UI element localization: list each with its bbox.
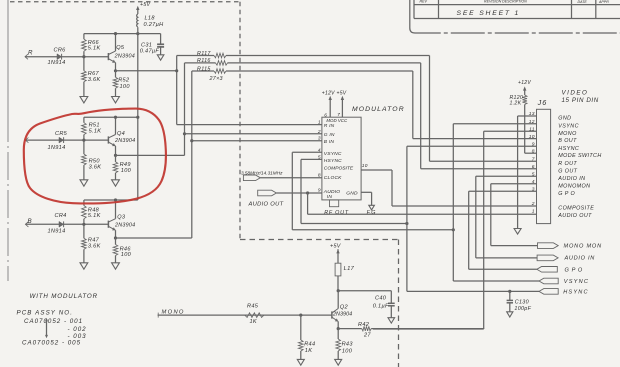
svg-text:- 002: - 002: [68, 326, 87, 333]
svg-text:AUDIO OUT: AUDIO OUT: [557, 213, 592, 219]
svg-text:0.1µF: 0.1µF: [373, 304, 389, 310]
svg-text:COMPOSITE: COMPOSITE: [558, 206, 594, 212]
svg-text:1N914: 1N914: [48, 229, 66, 235]
svg-text:100: 100: [342, 348, 353, 354]
svg-text:9: 9: [532, 141, 535, 147]
svg-text:2N3904: 2N3904: [114, 54, 135, 60]
svg-text:Q3: Q3: [117, 214, 126, 220]
svg-text:1.2K: 1.2K: [510, 101, 522, 107]
svg-text:3: 3: [318, 136, 321, 142]
svg-text:R OUT: R OUT: [558, 161, 577, 167]
svg-text:3.6K: 3.6K: [88, 77, 101, 83]
svg-text:VSYNC: VSYNC: [324, 151, 342, 157]
svg-text:7: 7: [532, 157, 535, 163]
svg-text:IN: IN: [327, 194, 333, 200]
svg-text:1K: 1K: [305, 348, 312, 354]
svg-text:Q4: Q4: [117, 131, 125, 137]
svg-text:MONO MON: MONO MON: [564, 244, 603, 250]
svg-text:CA070052 - 001: CA070052 - 001: [24, 318, 83, 325]
svg-text:AUDIO IN: AUDIO IN: [557, 176, 585, 182]
svg-text:5.1K: 5.1K: [88, 46, 101, 52]
svg-text:10: 10: [362, 163, 368, 169]
svg-text:12: 12: [529, 119, 535, 125]
svg-text:WITH MODULATOR: WITH MODULATOR: [30, 293, 98, 300]
svg-text:HSYNC: HSYNC: [563, 290, 589, 296]
svg-text:2N3904: 2N3904: [114, 222, 135, 228]
svg-text:C130: C130: [515, 299, 529, 305]
svg-text:VSYNC: VSYNC: [558, 123, 579, 129]
svg-text:HSYNC: HSYNC: [558, 146, 579, 152]
svg-text:MONO: MONO: [162, 309, 185, 315]
svg-text:MOD VCC: MOD VCC: [326, 118, 348, 123]
svg-text:CR4: CR4: [55, 213, 67, 219]
svg-text:REV: REV: [420, 0, 428, 4]
svg-text:CR5: CR5: [55, 131, 68, 137]
svg-text:+12V: +12V: [518, 80, 531, 86]
svg-text:REVISION DESCRIPTION: REVISION DESCRIPTION: [484, 0, 527, 4]
svg-text:3.6K: 3.6K: [89, 165, 102, 171]
svg-text:27: 27: [363, 333, 371, 339]
svg-text:0.47µF: 0.47µF: [140, 49, 160, 55]
svg-text:J6: J6: [537, 98, 548, 107]
svg-text:B OUT: B OUT: [558, 138, 577, 144]
svg-text:2N3904: 2N3904: [114, 138, 135, 144]
svg-text:1: 1: [318, 120, 321, 126]
svg-text:C40: C40: [375, 296, 387, 302]
svg-text:1K: 1K: [250, 319, 257, 325]
svg-text:GND: GND: [558, 116, 571, 122]
svg-text:COMPOSITE: COMPOSITE: [324, 165, 354, 171]
svg-text:MODE SWITCH: MODE SWITCH: [558, 153, 601, 159]
svg-text:R IN: R IN: [324, 123, 335, 129]
svg-text:R117: R117: [197, 51, 211, 57]
svg-text:PCB ASSY NO.: PCB ASSY NO.: [17, 309, 74, 316]
svg-text:1N914: 1N914: [48, 60, 66, 66]
svg-text:MONOMON: MONOMON: [558, 183, 590, 189]
svg-text:100pF: 100pF: [514, 306, 531, 312]
svg-text:MONO: MONO: [558, 131, 577, 137]
svg-text:+5V: +5V: [330, 244, 342, 250]
svg-text:R43: R43: [342, 342, 354, 348]
svg-text:AUDIO IN: AUDIO IN: [564, 256, 596, 262]
svg-text:C31: C31: [141, 42, 152, 48]
svg-text:G IN: G IN: [324, 132, 335, 138]
svg-text:CA070052 - 005: CA070052 - 005: [22, 340, 81, 347]
svg-text:L18: L18: [145, 16, 156, 22]
svg-text:2: 2: [531, 201, 535, 207]
svg-text:R115: R115: [197, 66, 211, 72]
svg-text:Q2: Q2: [340, 304, 349, 310]
svg-text:100: 100: [121, 168, 132, 174]
svg-text:100: 100: [121, 252, 132, 258]
svg-text:G OUT: G OUT: [558, 168, 577, 174]
svg-text:+5V: +5V: [140, 2, 151, 8]
svg-text:1N914: 1N914: [48, 145, 66, 151]
svg-text:G P O: G P O: [565, 268, 583, 274]
svg-text:VIDEO: VIDEO: [562, 90, 589, 97]
svg-text:R45: R45: [247, 304, 259, 310]
svg-text:APPR: APPR: [598, 0, 609, 4]
svg-text:R116: R116: [197, 58, 211, 64]
svg-text:5.1K: 5.1K: [88, 213, 101, 219]
svg-text:100: 100: [120, 84, 131, 90]
svg-text:27×3: 27×3: [209, 76, 223, 82]
svg-text:G P O: G P O: [558, 191, 575, 197]
svg-text:3.58MHz/14.31MHz: 3.58MHz/14.31MHz: [241, 170, 283, 175]
svg-text:R42: R42: [358, 322, 370, 328]
svg-text:DATE: DATE: [578, 0, 588, 4]
svg-text:CR6: CR6: [54, 48, 67, 54]
svg-text:HSYNC: HSYNC: [324, 158, 342, 164]
svg-text:F.G: F.G: [367, 210, 376, 216]
svg-text:2N3904: 2N3904: [332, 312, 352, 318]
svg-text:+12V +5V: +12V +5V: [322, 91, 347, 97]
svg-text:L17: L17: [344, 266, 355, 272]
svg-text:R44: R44: [304, 342, 315, 348]
svg-text:SEE SHEET 1: SEE SHEET 1: [457, 10, 521, 17]
svg-text:3.6K: 3.6K: [88, 244, 101, 250]
svg-text:1: 1: [532, 209, 535, 215]
svg-text:R52: R52: [118, 78, 130, 84]
svg-text:10: 10: [529, 134, 535, 140]
svg-text:Q5: Q5: [116, 45, 125, 51]
svg-text:15 PIN DIN: 15 PIN DIN: [562, 97, 599, 104]
svg-text:0.27µH: 0.27µH: [144, 22, 165, 28]
svg-text:GND: GND: [346, 191, 358, 197]
svg-text:RF OUT: RF OUT: [324, 210, 349, 216]
svg-text:CLOCK: CLOCK: [324, 175, 342, 181]
svg-text:2: 2: [317, 129, 321, 135]
svg-text:AUDIO OUT: AUDIO OUT: [248, 202, 284, 208]
svg-text:5.1K: 5.1K: [89, 129, 102, 135]
svg-text:R: R: [28, 50, 33, 57]
svg-text:VSYNC: VSYNC: [564, 279, 589, 285]
svg-text:6: 6: [532, 164, 535, 170]
svg-text:B IN: B IN: [324, 139, 335, 145]
svg-text:B: B: [28, 218, 32, 225]
svg-text:MODULATOR: MODULATOR: [352, 106, 405, 113]
